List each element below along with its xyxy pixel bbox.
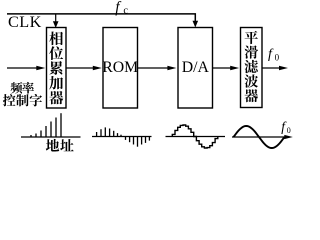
wire: phase accumulator to ROM bbox=[66, 67, 95, 69]
wire: output arrow f0 bbox=[262, 67, 281, 69]
arrowhead: clock into D/A bbox=[193, 21, 199, 28]
svg-text:0: 0 bbox=[287, 126, 291, 135]
block U4: 平滑滤波器 (smoothing filter) bbox=[241, 28, 263, 108]
waveform: address ramp impulses bbox=[21, 136, 81, 138]
arrowhead: clock into phase accumulator bbox=[53, 21, 59, 28]
label 频率控制字 (frequency control word) bbox=[3, 82, 42, 107]
waveform: D/A staircase sine bbox=[166, 136, 226, 138]
block U2: ROM lookup table bbox=[103, 28, 138, 109]
waveform: sampled sine impulses bbox=[92, 136, 152, 138]
svg-text:c: c bbox=[123, 6, 128, 17]
svg-text:D/A: D/A bbox=[182, 59, 210, 76]
svg-text:0: 0 bbox=[275, 53, 280, 63]
svg-text:ROM: ROM bbox=[102, 59, 138, 76]
svg-text:CLK: CLK bbox=[8, 13, 42, 31]
block U3: D/A converter bbox=[178, 28, 213, 109]
wire: clock branch to phase accumulator bbox=[55, 14, 57, 22]
wire: frequency control word input arrow bbox=[7, 67, 38, 69]
wire: ROM to D/A bbox=[138, 67, 170, 69]
wire: D/A to smoothing filter bbox=[213, 67, 233, 69]
wire: clock line fc bbox=[7, 14, 195, 22]
label 地址 (address) bbox=[46, 139, 74, 152]
waveform: smooth output sine f0 bbox=[232, 136, 287, 138]
block U1: 相位累加器 (phase accumulator) bbox=[47, 28, 67, 109]
